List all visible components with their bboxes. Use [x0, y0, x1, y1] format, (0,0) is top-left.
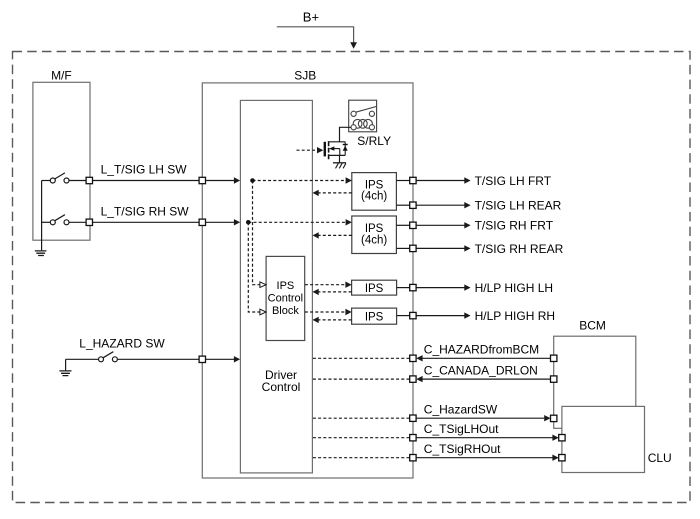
- svg-text:T/SIG RH REAR: T/SIG RH REAR: [475, 242, 564, 256]
- dashed return wire U3 to Driver Control: [319, 291, 352, 293]
- arrow B+ into system border: [350, 42, 357, 49]
- svg-text:C_HazardSW: C_HazardSW: [424, 402, 498, 416]
- IPS U4 box: [352, 308, 397, 324]
- transistor Q1 body diode branch: [344, 142, 346, 156]
- svg-text:CLU: CLU: [648, 451, 672, 465]
- dashed wire control block to IPS U4: [305, 311, 346, 313]
- svg-text:SJB: SJB: [294, 69, 316, 83]
- BCM box: [554, 336, 636, 428]
- wire T/SIG RH REAR external: [416, 247, 464, 249]
- terminal pins SJB left: [199, 177, 205, 362]
- dashed wire row2 to IPS U2 input: [248, 221, 345, 223]
- wire T/SIG LH FRT external: [416, 180, 464, 182]
- svg-text:L_T/SIG LH SW: L_T/SIG LH SW: [101, 163, 188, 177]
- arrow gate drive: [317, 147, 323, 153]
- relay contact terminal circles: [351, 111, 356, 116]
- IPS U3 box: [352, 280, 397, 295]
- wire U2 output T/SIG RH REAR: [396, 247, 409, 249]
- wire L_T/SIG RH SW net: [93, 221, 199, 223]
- CLU box: [562, 406, 645, 472]
- wire C_HazardSW to BCM: [416, 417, 544, 419]
- terminal pins M/F: [86, 177, 92, 225]
- svg-text:H/LP HIGH RH: H/LP HIGH RH: [475, 309, 555, 323]
- wire Q1 source to ground: [339, 155, 341, 162]
- terminal pins SJB right: [410, 177, 416, 461]
- wire U2 output T/SIG RH FRT: [396, 224, 409, 226]
- M/F box: [33, 82, 90, 240]
- ground Q1 source: [333, 162, 346, 164]
- svg-text:Block: Block: [272, 305, 299, 317]
- switch L_HAZARD SW: [66, 358, 99, 360]
- svg-text:B+: B+: [303, 9, 319, 24]
- wire switch2 to M/F pin: [69, 221, 86, 223]
- wire C_TSigRHOut to CLU: [416, 457, 552, 459]
- dashed wire row1 to IPS U1 input: [253, 180, 346, 182]
- terminal pins CLU: [559, 435, 565, 461]
- svg-text:IPS: IPS: [365, 223, 384, 235]
- wire H/LP HIGH RH external: [416, 315, 464, 317]
- IPS Control Block U-CB: [266, 256, 305, 340]
- wire relay coil to FET drain: [340, 127, 352, 142]
- svg-text:C_CANADA_DRLON: C_CANADA_DRLON: [424, 364, 538, 378]
- node junction row2: [246, 220, 251, 225]
- transistor Q1 channel segments: [328, 141, 330, 159]
- wire C_TSigLHOut to CLU: [416, 437, 552, 439]
- svg-text:Control: Control: [262, 380, 301, 394]
- svg-text:C_TSigLHOut: C_TSigLHOut: [424, 422, 499, 436]
- svg-text:BCM: BCM: [579, 318, 606, 332]
- dashed wire C_CANADA_DRLON inside SJB: [313, 378, 410, 380]
- dashed return wire U2 to Driver Control: [319, 234, 352, 236]
- wire B+ feed: [277, 27, 354, 43]
- transistor Q1 relay driver FET gate bar: [324, 142, 326, 157]
- wire H/LP HIGH LH external: [416, 287, 464, 289]
- IPS (4ch) U2 box: [352, 216, 397, 254]
- wire U3 output H/LP HIGH LH: [397, 287, 410, 289]
- svg-text:L_HAZARD SW: L_HAZARD SW: [79, 336, 165, 350]
- wire T/SIG RH FRT external: [416, 224, 464, 226]
- wire T/SIG LH REAR external: [416, 204, 464, 206]
- wire U1 output T/SIG LH REAR: [396, 204, 409, 206]
- wire U4 output H/LP HIGH RH: [397, 315, 410, 317]
- svg-text:(4ch): (4ch): [361, 234, 387, 246]
- Driver Control block: [240, 100, 312, 473]
- dashed wire C_TSigLHOut inside SJB: [313, 437, 410, 439]
- ground M/F: [35, 251, 47, 256]
- svg-text:M/F: M/F: [51, 69, 72, 83]
- SJB box: [202, 83, 413, 478]
- wire L_HAZARD SW net: [118, 358, 200, 360]
- svg-text:Control: Control: [268, 293, 303, 305]
- wire C_HAZARDfromBCM from BCM: [422, 357, 550, 359]
- switch L_T/SIG RH SW: [42, 221, 51, 223]
- relay contact blade: [356, 106, 377, 112]
- wire C_CANADA_DRLON from BCM: [422, 378, 550, 380]
- switch L_T/SIG LH SW: [42, 180, 51, 182]
- wire L_T/SIG LH SW net: [93, 180, 199, 182]
- svg-text:T/SIG LH FRT: T/SIG LH FRT: [475, 174, 552, 188]
- svg-text:C_TSigRHOut: C_TSigRHOut: [424, 442, 501, 456]
- svg-text:C_HAZARDfromBCM: C_HAZARDfromBCM: [424, 343, 539, 357]
- svg-text:(4ch): (4ch): [361, 191, 387, 203]
- dashed wire control block to IPS U3: [305, 284, 346, 286]
- relay S/RLY box: [349, 100, 377, 132]
- wire U1 output T/SIG LH FRT: [396, 180, 409, 182]
- dashed wire row2 down to control block input B: [248, 222, 259, 312]
- dashed wire C_HAZARDfromBCM inside SJB: [313, 357, 410, 359]
- node junction row1: [250, 178, 255, 183]
- svg-text:L_T/SIG RH SW: L_T/SIG RH SW: [101, 205, 190, 219]
- svg-text:H/LP HIGH LH: H/LP HIGH LH: [475, 281, 553, 295]
- transistor Q1 substrate arrow: [329, 146, 335, 150]
- svg-text:IPS: IPS: [277, 280, 295, 292]
- gate drive dashed wire from Driver Control: [297, 149, 318, 151]
- svg-text:T/SIG RH FRT: T/SIG RH FRT: [475, 219, 554, 233]
- terminal pins BCM: [551, 355, 557, 422]
- svg-text:IPS: IPS: [365, 311, 384, 323]
- dashed wire C_TSigRHOut inside SJB: [313, 457, 410, 459]
- dashed wire C_HazardSW inside SJB: [313, 417, 410, 419]
- svg-text:S/RLY: S/RLY: [357, 134, 391, 148]
- dashed return wire U1 to Driver Control: [319, 192, 352, 194]
- transistor Q1 source lead: [329, 154, 346, 156]
- relay coil: [353, 119, 362, 128]
- dashed return wire U4 to Driver Control: [319, 319, 352, 321]
- svg-text:IPS: IPS: [365, 283, 384, 295]
- ground L_HAZARD: [65, 359, 67, 370]
- svg-text:T/SIG LH REAR: T/SIG LH REAR: [475, 199, 562, 213]
- M/F internal ground riser: [41, 181, 43, 251]
- relay coil terminal circles: [351, 125, 356, 130]
- dashed wire row1 down to control block input A: [253, 181, 260, 285]
- IPS (4ch) U1 box: [352, 173, 397, 211]
- transistor Q1 drain lead: [329, 141, 346, 143]
- wire switch1 to M/F pin: [69, 180, 86, 182]
